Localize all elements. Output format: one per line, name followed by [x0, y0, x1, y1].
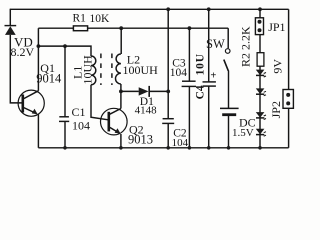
diode D1 4148	[121, 86, 168, 97]
LED 3	[256, 112, 266, 119]
node: C1 tap	[63, 44, 67, 48]
svg-text:R1: R1	[73, 12, 87, 24]
svg-text:C4: C4	[195, 85, 207, 99]
resistor R1 box	[73, 26, 87, 31]
node: C4 top tap	[207, 7, 211, 11]
wire: left rail upper segment	[9, 9, 11, 26]
wire: Q1 emitter to ground rail	[37, 114, 39, 148]
capacitor C1 104	[59, 46, 69, 148]
svg-text:JP1: JP1	[268, 20, 285, 34]
wire: right rail upper	[288, 9, 290, 89]
svg-text:1.5V: 1.5V	[232, 127, 254, 139]
LED 4	[256, 129, 266, 136]
wire: output riser / C2 line	[167, 9, 169, 118]
svg-text:9013: 9013	[128, 133, 153, 147]
node: C1 ground	[63, 146, 67, 150]
svg-text:9V: 9V	[271, 59, 285, 74]
node: output riser top	[166, 7, 170, 11]
node: JP1 top	[258, 7, 262, 11]
wire: right rail lower	[288, 108, 290, 148]
LED 1	[256, 70, 266, 77]
resistor R2	[257, 53, 264, 66]
svg-text:+: +	[210, 70, 216, 81]
wire: left rail lower + Q1 base wire	[10, 35, 22, 103]
svg-text:10K: 10K	[90, 13, 111, 25]
inductor L1 winding	[91, 56, 96, 85]
node: C4 ground	[207, 146, 211, 150]
jumper JP2	[283, 90, 293, 109]
wire: top +9V rail	[10, 8, 288, 10]
battery DC 1.5V	[220, 71, 239, 148]
wire: L2 bottom / Q2 collector	[120, 84, 122, 109]
svg-text:10U: 10U	[195, 53, 207, 75]
node: D1 anode tap	[119, 90, 123, 94]
transformer core	[101, 54, 112, 86]
node: battery ground	[227, 146, 231, 150]
svg-text:10UH: 10UH	[81, 55, 95, 85]
svg-text:SW: SW	[206, 37, 225, 51]
svg-text:104: 104	[72, 119, 90, 133]
wire: R1 / battery positive rail y=27	[38, 27, 228, 29]
node: D1 cathode junction	[166, 90, 170, 94]
capacitor C2 104	[162, 119, 174, 148]
svg-text:104: 104	[170, 67, 188, 79]
node: C3 top tap	[188, 26, 192, 30]
svg-text:100UH: 100UH	[123, 63, 159, 77]
svg-text:9014: 9014	[36, 71, 62, 85]
capacitor C3 104	[182, 28, 196, 148]
svg-text:8.2V: 8.2V	[11, 45, 35, 59]
transistor Q2 9013	[101, 108, 128, 135]
wire: Q2 emitter to ground rail	[120, 134, 122, 148]
node: Q2 emitter ground	[119, 146, 123, 150]
wire: Q1 collector riser	[37, 28, 39, 91]
svg-text:JP2: JP2	[269, 101, 283, 118]
svg-text:R2 2.2K: R2 2.2K	[238, 26, 252, 67]
LED 2	[256, 88, 266, 95]
wire: L1 bottom to Q2 base	[91, 85, 108, 120]
wire: junction to L1 top	[38, 46, 91, 56]
node: Q1 collector / L1-C1 junction	[37, 44, 41, 48]
zener diode VD	[5, 26, 17, 35]
svg-text:4148: 4148	[135, 105, 158, 117]
wire: LED chain	[259, 66, 261, 148]
capacitor C4 10U electrolytic	[203, 9, 216, 148]
wire: bottom ground rail	[38, 147, 288, 149]
node: C3 ground	[188, 146, 192, 150]
switch SW	[224, 28, 230, 71]
transistor Q1 9014	[18, 90, 44, 116]
node: LED chain ground	[258, 146, 262, 150]
svg-text:C1: C1	[72, 105, 86, 119]
node: L2 top tap	[119, 26, 123, 30]
inductor L2 winding	[116, 28, 122, 84]
node: C2 ground	[166, 146, 170, 150]
jumper JP1	[255, 9, 263, 52]
